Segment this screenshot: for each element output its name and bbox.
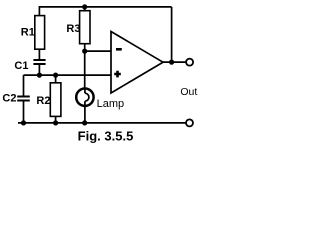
wire C2 to bottom rail	[23, 102, 25, 123]
junction dot node A / C1	[37, 73, 42, 78]
wire node B to op-amp inverting input	[85, 50, 111, 52]
junction dot output node	[169, 60, 174, 65]
wire from top rail down to R1	[38, 7, 40, 16]
wire op-amp output	[162, 61, 186, 63]
wire node A to R2	[55, 75, 57, 83]
lamp filament arc	[85, 93, 89, 101]
wire top rail	[39, 6, 172, 8]
junction dot bottom rail / R2	[53, 120, 58, 125]
svg-text:Lamp: Lamp	[97, 98, 125, 110]
wire top rail to R3	[84, 7, 86, 11]
op-amp U1	[111, 32, 163, 94]
wire R3 to node B	[84, 44, 86, 51]
wire node A horizontal	[24, 74, 112, 76]
output terminal	[186, 59, 193, 66]
wire node B down to lamp	[84, 51, 86, 89]
svg-text:C1: C1	[14, 60, 28, 72]
svg-text:Out: Out	[180, 86, 197, 98]
junction dot top rail / R3	[82, 4, 87, 9]
svg-text:Fig. 3.5.5: Fig. 3.5.5	[78, 128, 134, 143]
junction dot bottom rail / C2	[21, 120, 26, 125]
junction dot bottom rail / lamp	[82, 120, 87, 125]
junction dot node B	[82, 49, 87, 54]
wire lamp to bottom rail	[84, 101, 86, 123]
resistor R2	[50, 83, 61, 117]
svg-text:R2: R2	[36, 95, 50, 107]
wire bottom rail	[18, 122, 186, 124]
capacitor C2	[17, 97, 30, 101]
lamp	[76, 89, 93, 106]
wire top rail down to output node	[171, 7, 173, 62]
resistor R1	[35, 16, 45, 50]
capacitor C1	[33, 60, 45, 64]
op-amp minus sign	[116, 48, 122, 51]
lamp filament wire top	[84, 89, 86, 93]
junction dot node A / R2	[53, 73, 58, 78]
resistor R3	[80, 11, 90, 44]
bottom right terminal	[186, 119, 193, 126]
wire C1 to node A	[38, 65, 40, 75]
wire node A down to C2	[23, 75, 25, 96]
svg-text:R3: R3	[66, 23, 80, 35]
wire R2 to bottom rail	[55, 116, 57, 123]
wire R1 to C1	[38, 49, 40, 59]
svg-text:C2: C2	[2, 93, 16, 105]
svg-text:R1: R1	[21, 27, 35, 39]
op-amp plus sign	[114, 71, 121, 78]
